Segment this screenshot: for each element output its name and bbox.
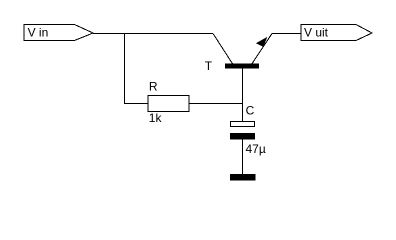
node V in (input tag) xyxy=(24,25,93,41)
wire: Vin tip to transistor base bend xyxy=(93,33,213,35)
wire: vertical branch down to resistor row xyxy=(124,33,126,104)
transistor T xyxy=(213,34,272,122)
base bar xyxy=(225,64,259,69)
svg-text:R: R xyxy=(149,80,158,94)
wire: horizontal into resistor xyxy=(124,103,148,105)
lead down from bar to node C xyxy=(242,68,244,122)
wire: capacitor to ground xyxy=(242,140,244,175)
wire: resistor to node C xyxy=(189,103,243,105)
ground xyxy=(230,174,256,181)
svg-text:1k: 1k xyxy=(149,111,163,125)
svg-text:V uit: V uit xyxy=(304,25,329,39)
svg-text:V in: V in xyxy=(28,25,49,39)
wire: emitter to V uit tag xyxy=(272,33,301,35)
svg-text:T: T xyxy=(205,59,213,73)
svg-text:C: C xyxy=(246,104,255,118)
capacitor C top plate xyxy=(231,122,255,127)
svg-text:47µ: 47µ xyxy=(246,142,266,156)
emitter diagonal with arrow xyxy=(252,34,273,65)
node V uit (output tag) xyxy=(301,25,372,41)
wire: diagonal from input wire to base bar xyxy=(213,34,233,65)
resistor R xyxy=(148,96,189,112)
capacitor C bottom plate xyxy=(230,133,255,140)
